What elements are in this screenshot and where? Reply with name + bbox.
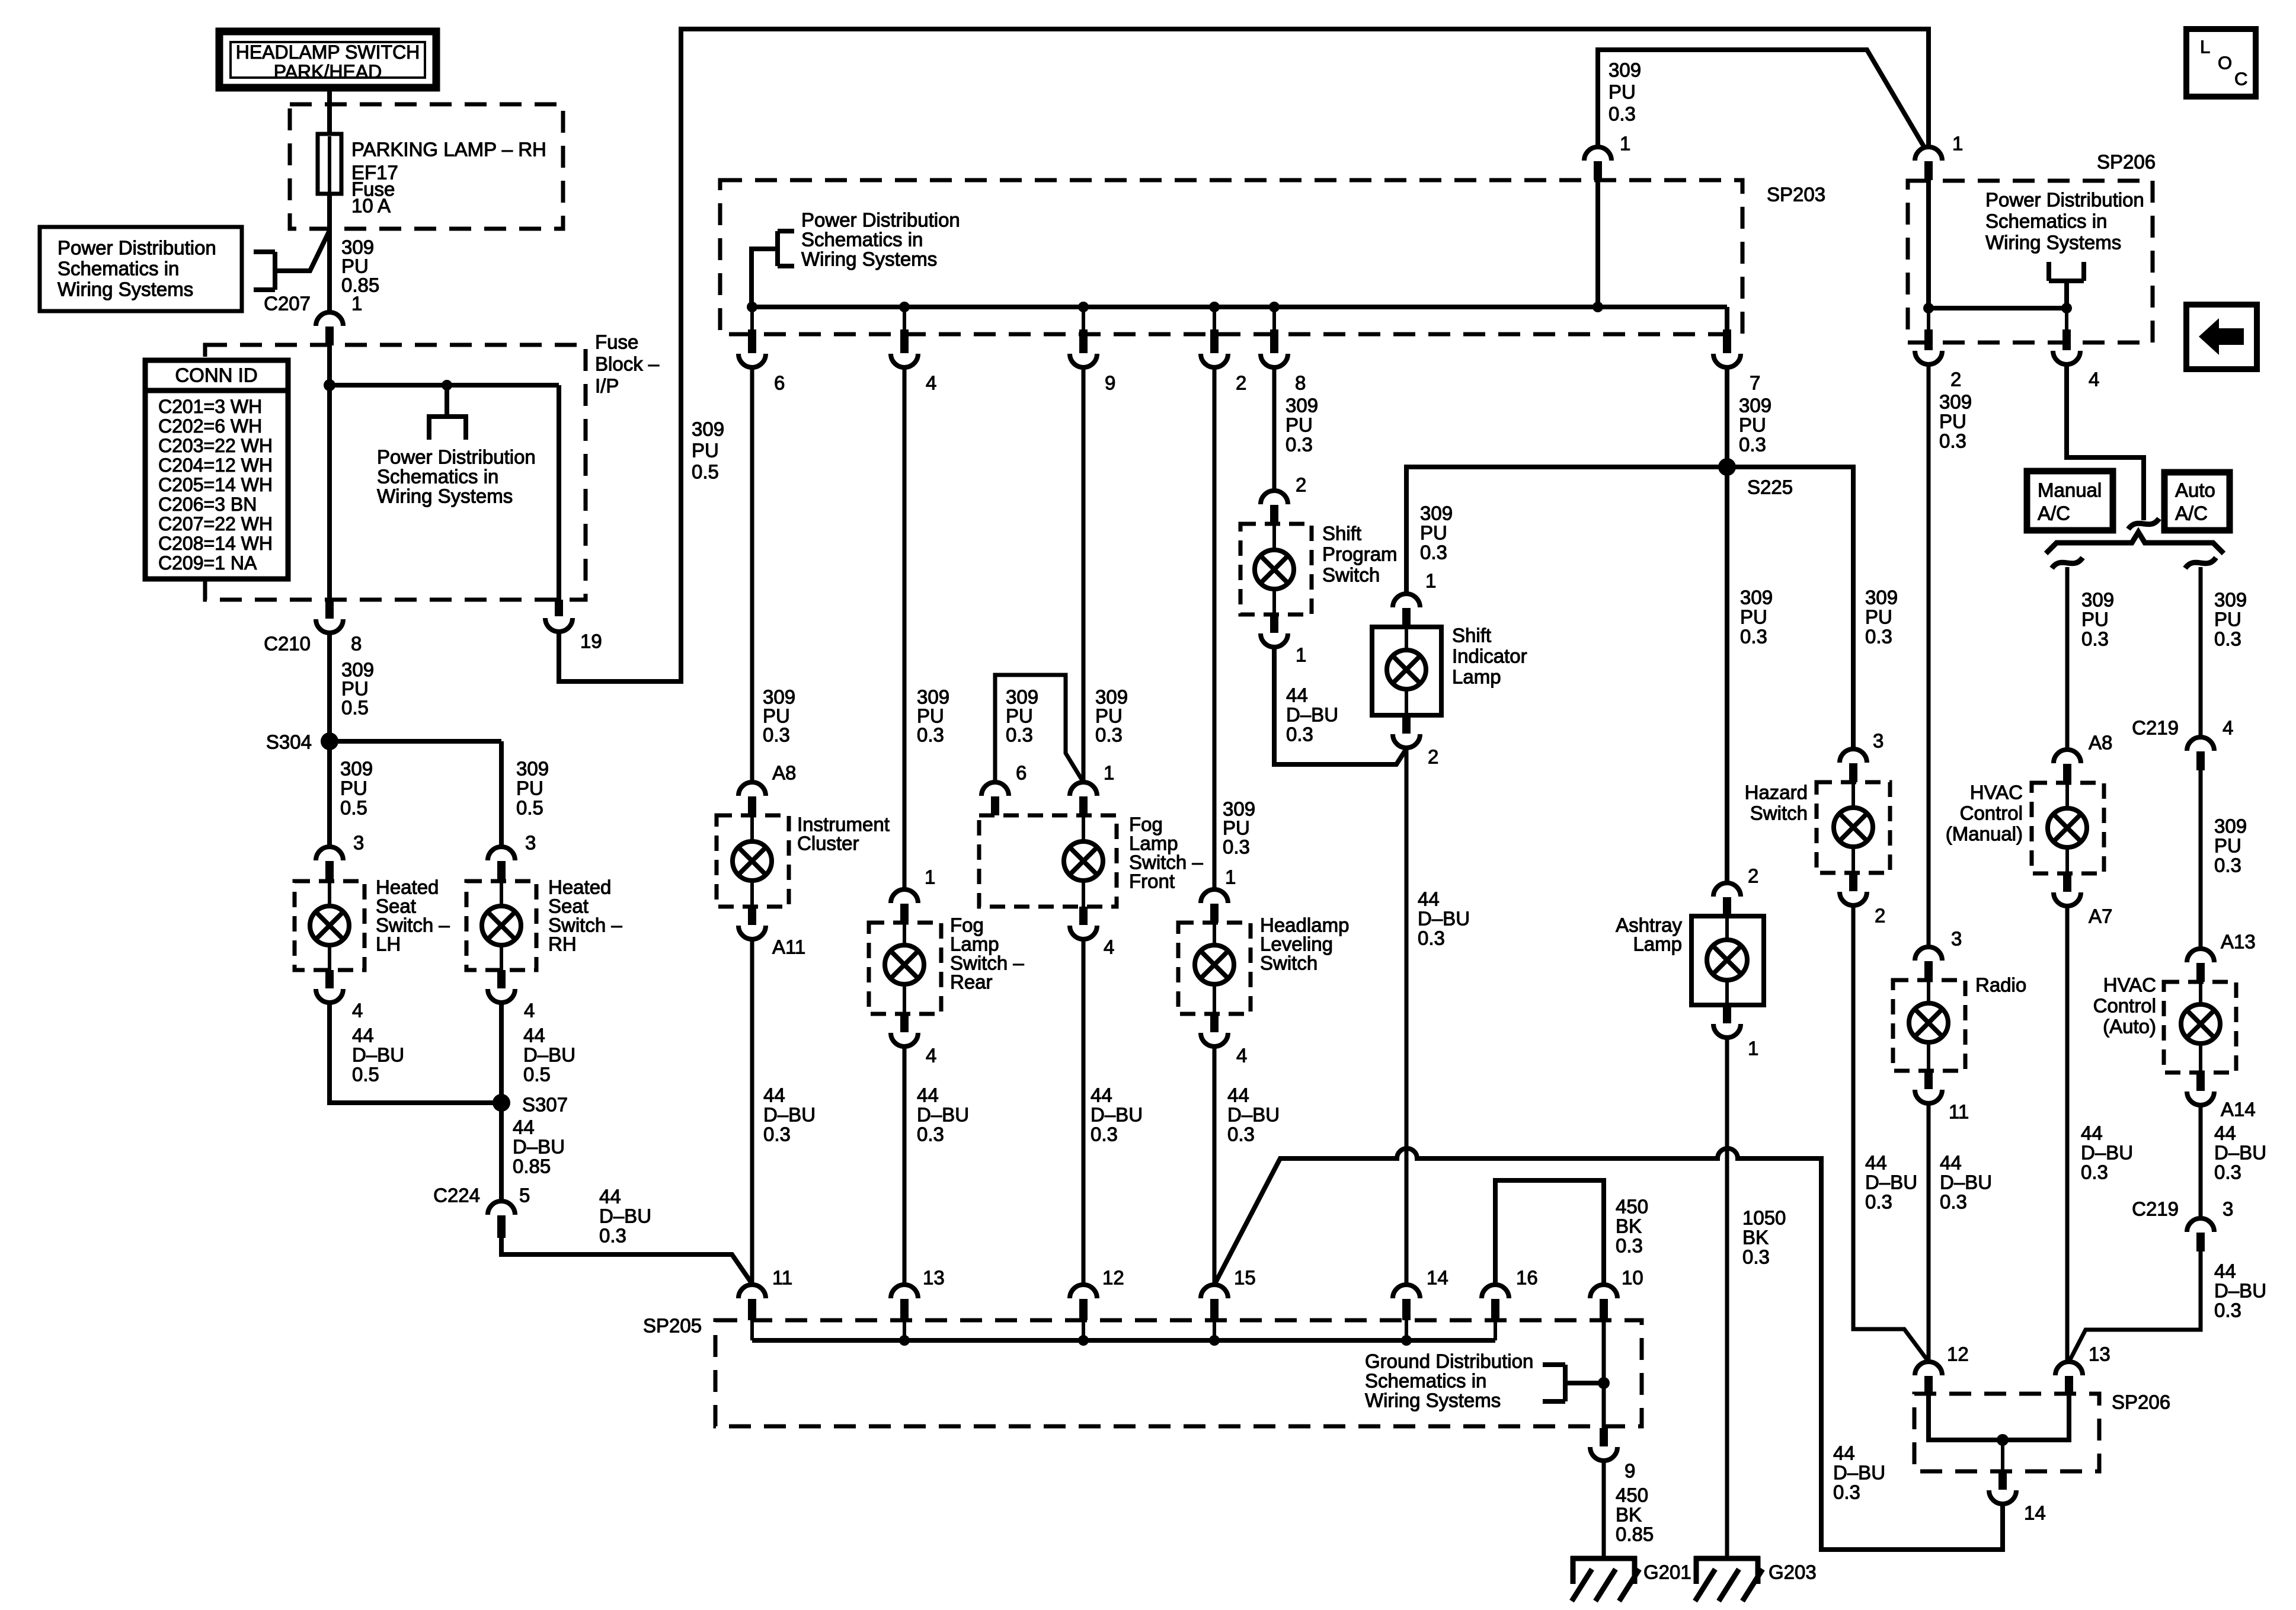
wire heated seat RH to S307	[499, 1003, 504, 1103]
dashed box SP203	[720, 180, 1742, 334]
connector shift program pin 1	[1270, 614, 1278, 633]
svg-text:Power Distribution: Power Distribution	[57, 237, 216, 259]
svg-text:C210: C210	[264, 633, 311, 655]
svg-text:309: 309	[1740, 587, 1773, 609]
wire SP206 pin 1 to internal bus	[1926, 180, 1931, 308]
connector shift indicator pin 2 arc	[1393, 734, 1420, 748]
junction SP203 bus x1269	[747, 302, 757, 312]
junction SP203 bus x1828	[1078, 302, 1089, 312]
svg-text:0.3: 0.3	[1616, 1235, 1643, 1257]
svg-text:0.3: 0.3	[1940, 1191, 1967, 1213]
svg-text:(Auto): (Auto)	[2103, 1016, 2156, 1038]
svg-text:0.3: 0.3	[917, 724, 944, 746]
label wire 309 PU 0.5 below C210	[341, 659, 374, 719]
connector shift indicator pin 1 arc	[1393, 594, 1420, 607]
reference bracket inside SP206 top	[2049, 262, 2084, 308]
connector heated seat LH pin 4	[325, 970, 334, 988]
wire SP206 bottom internal bus	[1929, 1394, 2069, 1440]
connector hazard pin 2	[1849, 873, 1857, 891]
junction SP206 top left	[1923, 303, 1934, 313]
label Fuse Block - I/P	[595, 331, 660, 397]
svg-text:44: 44	[513, 1116, 535, 1138]
connector SP203 pin 9	[1079, 329, 1088, 353]
svg-text:BK: BK	[1616, 1504, 1642, 1526]
svg-text:0.3: 0.3	[917, 1124, 944, 1145]
svg-text:A13: A13	[2221, 931, 2256, 953]
svg-text:1050: 1050	[1742, 1207, 1786, 1229]
connector C219 pin 4	[2196, 751, 2205, 770]
svg-text:Schematics in: Schematics in	[377, 466, 498, 488]
connector SP203 pin 8	[1270, 329, 1278, 353]
wire SP206 bus drop pin 2	[1927, 308, 1930, 332]
svg-text:PU: PU	[1939, 411, 1966, 433]
svg-text:D–BU: D–BU	[1833, 1462, 1885, 1484]
junction SP203 bus x2049	[1209, 302, 1220, 312]
svg-text:0.3: 0.3	[1223, 836, 1250, 858]
wire inside ashtray lamp	[1725, 916, 1729, 940]
wire SP203 pin 1 to bus	[1595, 180, 1600, 307]
connector heated seat RH pin 3 arc	[488, 847, 515, 860]
connector heated seat RH pin 3	[497, 861, 506, 881]
connector C207 arc	[316, 312, 343, 326]
svg-text:10: 10	[1622, 1267, 1643, 1289]
svg-text:HVAC: HVAC	[1970, 782, 2023, 804]
connector fog front pin 4 arc	[1070, 926, 1097, 939]
svg-text:A/C: A/C	[2038, 502, 2070, 524]
connector A11 pin	[748, 907, 756, 925]
wire S307 to C224	[499, 1103, 504, 1202]
connector fog front pin 6 arc	[981, 782, 1009, 796]
label wire 44 D-BU 0.5 RH	[523, 1025, 575, 1086]
junction SP206 top right	[2061, 303, 2072, 313]
wire S225 branch to hazard switch	[1727, 467, 1853, 749]
wire SP205 pin into bus x1828	[1082, 1320, 1085, 1340]
svg-text:9: 9	[1625, 1460, 1635, 1482]
wire inside HVAC manual lower	[2065, 847, 2069, 873]
svg-text:44: 44	[1227, 1084, 1249, 1106]
connector headlamp leveling pin 1 arc	[1201, 889, 1228, 903]
svg-text:C219: C219	[2132, 1198, 2179, 1220]
svg-text:0.85: 0.85	[341, 274, 379, 296]
label wire 309 PU 0.3 col B	[917, 686, 949, 746]
svg-text:16: 16	[1516, 1267, 1538, 1289]
svg-text:D–BU: D–BU	[1940, 1172, 1992, 1193]
connector SP206 pin 14	[1998, 1471, 2007, 1490]
wire inside shift program switch	[1272, 524, 1276, 550]
connector fog rear pin 4	[900, 1014, 909, 1032]
label wire 44 D-BU 0.3 SP206 bottom	[1833, 1442, 1885, 1503]
svg-text:4: 4	[2223, 717, 2233, 739]
svg-text:C205=14 WH: C205=14 WH	[158, 474, 273, 495]
svg-text:D–BU: D–BU	[523, 1044, 575, 1066]
svg-text:Rear: Rear	[950, 971, 993, 993]
svg-text:4: 4	[352, 1000, 363, 1022]
svg-text:D–BU: D–BU	[917, 1104, 969, 1126]
label wire 44 D-BU 0.3 col A	[763, 1084, 816, 1145]
ground G201	[1571, 1556, 1639, 1601]
label HVAC Control Auto	[2093, 974, 2156, 1038]
wire SP203 pin 6 to instrument cluster	[750, 367, 754, 782]
svg-text:C209=1 NA: C209=1 NA	[158, 552, 257, 574]
dashed box Fog Lamp Switch - Rear	[869, 923, 941, 1014]
svg-text:Power Distribution: Power Distribution	[1985, 189, 2144, 211]
connector SP205 pin 16 arc	[1482, 1285, 1509, 1298]
svg-text:0.3: 0.3	[1609, 103, 1636, 125]
junction S307	[493, 1094, 510, 1112]
wire inside heated seat LH lower	[328, 945, 331, 970]
connector HVAC auto A13 arc	[2187, 949, 2214, 962]
junction S304	[321, 732, 338, 750]
svg-text:A14: A14	[2221, 1099, 2256, 1121]
svg-text:PU: PU	[1865, 606, 1892, 628]
connector C224 arc	[488, 1201, 515, 1215]
junction SP205 bus x1526	[899, 1335, 910, 1346]
svg-text:309: 309	[2214, 589, 2247, 611]
component box HEADLAMP SWITCH PARK/HEAD	[219, 31, 436, 88]
variant box Manual A/C	[2027, 471, 2113, 530]
label wire 309 PU 0.3 col 8	[1285, 395, 1318, 456]
svg-text:Wiring Systems: Wiring Systems	[1365, 1390, 1501, 1411]
svg-text:44: 44	[2214, 1122, 2236, 1144]
connector SP205 pin 15	[1210, 1299, 1219, 1320]
svg-text:C224: C224	[433, 1185, 480, 1206]
svg-text:SP203: SP203	[1767, 184, 1825, 206]
dashed box Instrument Cluster	[717, 815, 789, 907]
svg-text:44: 44	[599, 1186, 621, 1208]
svg-text:A11: A11	[772, 936, 805, 958]
wire fuse block bus to pin 8	[327, 385, 332, 600]
label wire 309 PU 0.3 ashtray	[1740, 587, 1773, 648]
brace for A/C variants	[2046, 532, 2224, 553]
label Fog Lamp Switch - Rear	[950, 914, 1024, 993]
wire Manual A/C branch to HVAC manual	[2065, 567, 2070, 750]
connector SP205 pin 13	[900, 1299, 909, 1320]
connector HVAC auto A13 pin	[2196, 963, 2205, 982]
wire fuse EF17 to C207	[327, 192, 332, 312]
dashed box SP205	[715, 1320, 1642, 1426]
connector SP205 pin 9 arc	[1590, 1447, 1617, 1461]
svg-text:6: 6	[774, 372, 785, 394]
svg-text:Manual: Manual	[2038, 479, 2102, 501]
connector ashtray pin 1 arc	[1713, 1024, 1741, 1038]
lamp heated seat switch LH	[310, 906, 349, 945]
label Heated Seat Switch - RH	[548, 876, 622, 955]
wire S225 to ashtray lamp	[1725, 467, 1729, 883]
wire C219 pin 3 to SP206 pin 13	[2069, 1251, 2201, 1362]
label wire 44 D-BU 0.85	[513, 1116, 565, 1177]
wire SP203 bus drop pin 6	[750, 307, 754, 332]
dashed box Heated Seat Switch LH	[295, 881, 364, 970]
connector HVAC manual A7 arc	[2054, 892, 2081, 906]
svg-text:0.5: 0.5	[516, 797, 543, 819]
label Power Distribution ref in fuse block	[377, 446, 536, 507]
connector HVAC manual A8 pin	[2063, 764, 2071, 783]
label Shift Program Switch	[1322, 523, 1398, 586]
label wire 309 PU 0.3 shift indicator	[1420, 502, 1453, 564]
svg-text:PU: PU	[2081, 609, 2109, 630]
connector SP205 pin 13 arc	[891, 1285, 918, 1298]
svg-text:D–BU: D–BU	[513, 1136, 565, 1158]
svg-text:Indicator: Indicator	[1452, 645, 1527, 667]
svg-text:Shift: Shift	[1452, 625, 1491, 646]
fuse EF17	[318, 134, 341, 194]
label wire 309 PU 0.3 hazard	[1865, 587, 1898, 648]
wire S304 branch to RH	[330, 739, 501, 744]
wire heated seat LH to S307	[330, 1003, 501, 1103]
wire C219 pin 4 to HVAC auto	[2199, 770, 2203, 949]
connector HVAC auto A14 pin	[2196, 1073, 2205, 1091]
svg-text:Switch: Switch	[1322, 564, 1380, 586]
svg-text:3: 3	[1951, 928, 1962, 950]
dashed box HVAC Control Manual	[2032, 783, 2104, 873]
label Shift Indicator Lamp	[1452, 625, 1527, 688]
connector SP205 pin 10 arc	[1590, 1285, 1617, 1298]
dashed box HVAC Control Auto	[2164, 982, 2236, 1073]
svg-text:0.3: 0.3	[2214, 628, 2241, 650]
break symbol Auto A/C branch	[2185, 558, 2216, 568]
svg-text:D–BU: D–BU	[1091, 1104, 1143, 1126]
connector SP205 pin 9	[1600, 1428, 1608, 1446]
svg-text:1: 1	[1225, 866, 1236, 888]
svg-text:Control: Control	[2093, 995, 2156, 1017]
wire pin 19 feed to SP206 pin 1	[559, 29, 1929, 681]
svg-text:0.3: 0.3	[1739, 434, 1766, 456]
svg-text:C203=22 WH: C203=22 WH	[158, 435, 273, 456]
svg-text:Wiring Systems: Wiring Systems	[57, 279, 193, 300]
svg-text:13: 13	[2089, 1343, 2110, 1365]
connector shift program pin 2 arc	[1261, 491, 1288, 504]
svg-text:10 A: 10 A	[351, 195, 391, 217]
svg-text:Fuse: Fuse	[595, 331, 638, 353]
svg-text:Schematics in: Schematics in	[1985, 210, 2107, 232]
lamp ashtray	[1707, 940, 1747, 980]
svg-text:44: 44	[1286, 684, 1308, 706]
svg-text:Switch: Switch	[1750, 802, 1808, 824]
label PARKING LAMP - RH EF17 Fuse 10 A	[351, 139, 546, 217]
svg-text:Block –: Block –	[595, 353, 660, 375]
variant box Auto A/C	[2164, 472, 2230, 530]
svg-text:0.3: 0.3	[2081, 628, 2109, 650]
CONN ID table	[145, 360, 288, 579]
wire shift indicator pin 2 to SP205 pin 14	[1405, 748, 1409, 1285]
connector hazard pin 3	[1849, 763, 1857, 782]
label wire 309 PU 0.3 col C pin1	[1095, 686, 1128, 746]
wire 450 BK loop pin 16 to pin 10	[1495, 1180, 1604, 1285]
connector SP203 pin 7 arc	[1713, 354, 1741, 367]
lamp radio	[1909, 1003, 1948, 1042]
wire SP203 pin 8 to shift program switch	[1272, 367, 1277, 491]
svg-text:309: 309	[1865, 587, 1898, 609]
svg-text:44: 44	[1418, 888, 1440, 910]
svg-text:S304: S304	[266, 731, 312, 753]
svg-text:PU: PU	[2214, 835, 2241, 857]
svg-text:D–BU: D–BU	[2081, 1142, 2133, 1164]
svg-text:4: 4	[1104, 936, 1114, 958]
connector shift program pin 1 arc	[1261, 633, 1288, 647]
connector heated seat RH pin 4	[497, 970, 506, 988]
svg-text:Power Distribution: Power Distribution	[801, 209, 960, 231]
svg-text:8: 8	[351, 633, 362, 655]
svg-text:BK: BK	[1616, 1215, 1642, 1237]
svg-text:BK: BK	[1742, 1227, 1769, 1249]
wire inside fog rear lower	[903, 984, 906, 1014]
label Power Distribution ref in SP203	[801, 209, 960, 270]
wire SP203 pin 4 to fog lamp rear	[903, 367, 907, 889]
connector SP206 pin 2	[1924, 329, 1933, 350]
label wire 309 PU 0.3 HVAC auto	[2214, 815, 2247, 876]
svg-text:1: 1	[925, 866, 935, 888]
connector SP205 pin 12	[1079, 1299, 1088, 1320]
svg-text:0.3: 0.3	[1227, 1124, 1255, 1145]
svg-text:PARKING LAMP – RH: PARKING LAMP – RH	[351, 139, 546, 161]
svg-text:0.3: 0.3	[2214, 1161, 2241, 1183]
connector hazard pin 3 arc	[1840, 749, 1867, 763]
label wire 309 PU 0.5 LH	[340, 758, 373, 819]
label HVAC Control Manual	[1946, 782, 2023, 845]
svg-text:0.3: 0.3	[763, 1124, 791, 1145]
wire inside HVAC auto	[2199, 982, 2202, 1004]
label wire 44 D-BU 0.3 col D	[1227, 1084, 1280, 1145]
lamp headlamp leveling switch	[1195, 945, 1234, 984]
svg-text:S307: S307	[522, 1094, 568, 1116]
wire fog front to SP205 pin 12	[1082, 939, 1086, 1285]
label wire 309 PU 0.85	[341, 236, 379, 296]
connector SP205 pin 15 arc	[1201, 1285, 1228, 1298]
svg-text:I/P: I/P	[595, 375, 619, 397]
wire inside fog front lower	[1082, 881, 1085, 907]
svg-text:4: 4	[926, 372, 936, 394]
wire hazard pin 2 to SP206 pin 12	[1853, 905, 1929, 1362]
wire C210 to S304	[327, 633, 332, 741]
svg-text:44: 44	[2081, 1122, 2103, 1144]
svg-text:0.5: 0.5	[692, 461, 719, 483]
svg-text:C208=14 WH: C208=14 WH	[158, 533, 273, 554]
wire inside fog front	[1082, 815, 1085, 841]
svg-text:7: 7	[1750, 372, 1760, 394]
svg-text:Ground Distribution: Ground Distribution	[1365, 1350, 1533, 1372]
svg-text:0.3: 0.3	[1006, 724, 1033, 746]
svg-text:PARK/HEAD: PARK/HEAD	[274, 61, 382, 82]
wire inside shift indicator	[1405, 627, 1408, 650]
svg-text:D–BU: D–BU	[2214, 1280, 2266, 1302]
wire headlamp leveling to SP205 pin 15	[1213, 1046, 1217, 1285]
connector SP205 pin 16	[1491, 1299, 1499, 1320]
svg-text:HEADLAMP SWITCH: HEADLAMP SWITCH	[236, 41, 420, 63]
connector fog front pin 6	[991, 796, 999, 815]
svg-text:D–BU: D–BU	[1227, 1104, 1280, 1126]
wire SP206 top internal bus	[1929, 306, 2067, 311]
dashed box Heated Seat Switch RH	[466, 881, 536, 970]
connector heated seat LH pin 3 arc	[316, 847, 343, 860]
wire SP205 pin 9 to G201	[1602, 1461, 1606, 1556]
svg-text:A8: A8	[2089, 732, 2112, 754]
connector SP206 pin 13 arc	[2055, 1362, 2083, 1375]
svg-text:3: 3	[525, 832, 536, 854]
connector fog rear pin 1	[900, 904, 909, 923]
legend box L O C	[2186, 29, 2256, 97]
wire branch to fog front pin 6	[995, 675, 1083, 782]
wire HVAC auto A14 to C219 pin 3	[2199, 1105, 2203, 1218]
dashed box Shift Program Switch	[1240, 524, 1312, 614]
label wire 309 PU 0.5 RH	[516, 758, 549, 819]
connector ashtray pin 2 arc	[1713, 883, 1741, 897]
svg-text:309: 309	[516, 758, 549, 780]
svg-text:3: 3	[353, 832, 364, 854]
wire SP205 pin into bus x1526	[903, 1320, 906, 1340]
connector fog front pin 1	[1079, 796, 1088, 815]
connector radio pin 11	[1924, 1071, 1933, 1089]
dashed box PARKING LAMP fuse	[290, 104, 563, 229]
svg-text:0.85: 0.85	[513, 1156, 551, 1177]
connector fog front pin 1 arc	[1070, 782, 1097, 796]
lamp shift program switch	[1255, 550, 1294, 589]
label wire 44 D-BU 0.3 to pin 11	[599, 1186, 651, 1247]
label Heated Seat Switch - LH	[376, 876, 450, 955]
wire inside fog rear	[903, 923, 906, 945]
svg-text:PU: PU	[1739, 414, 1766, 436]
svg-text:(Manual): (Manual)	[1946, 823, 2023, 845]
svg-text:Power Distribution: Power Distribution	[377, 446, 536, 468]
label wire 44 D-BU 0.3 HVAC auto	[2214, 1122, 2266, 1183]
wire SP203 bus to pin 7	[1725, 307, 1729, 332]
wire shift program pin 1 to shift indicator pin 2	[1274, 647, 1407, 764]
svg-text:A8: A8	[772, 762, 796, 784]
svg-text:Switch: Switch	[1260, 952, 1318, 974]
wire SP203 bus drop pin 2	[1213, 307, 1216, 332]
label Power Distribution ref in SP206	[1985, 189, 2144, 254]
svg-text:0.3: 0.3	[1095, 724, 1123, 746]
svg-text:Wiring Systems: Wiring Systems	[377, 485, 513, 507]
svg-text:0.5: 0.5	[352, 1064, 379, 1086]
svg-text:11: 11	[772, 1267, 792, 1289]
break symbol on A/C feed	[2128, 518, 2159, 529]
connector SP206 pin 13	[2065, 1376, 2073, 1394]
svg-text:A7: A7	[2089, 905, 2112, 927]
svg-text:Wiring Systems: Wiring Systems	[801, 248, 937, 270]
wire S304 to heated seat RH	[499, 741, 504, 847]
svg-text:1: 1	[1104, 762, 1114, 784]
svg-text:O: O	[2218, 53, 2232, 73]
svg-text:0.3: 0.3	[1286, 724, 1313, 745]
svg-text:4: 4	[524, 1000, 535, 1022]
svg-text:C: C	[2234, 69, 2247, 89]
reference bracket inside fuse block	[427, 385, 468, 440]
svg-text:1: 1	[1748, 1038, 1758, 1060]
connector C210 pin 8	[325, 600, 334, 619]
dashed box Fog Lamp Switch - Front	[979, 815, 1117, 907]
svg-text:RH: RH	[548, 933, 577, 955]
label Hazard Switch	[1745, 782, 1808, 824]
connector SP205 pin 11	[748, 1299, 756, 1320]
svg-text:G201: G201	[1643, 1561, 1691, 1583]
svg-text:PU: PU	[340, 777, 367, 799]
svg-text:0.3: 0.3	[599, 1225, 626, 1247]
box Power Distribution ref	[40, 227, 242, 311]
connector SP203 pin 4	[900, 329, 909, 353]
wire SP205 pin into bus x1269	[750, 1320, 754, 1340]
wire inside radio	[1927, 980, 1930, 1003]
wire inside ashtray lamp lower	[1725, 980, 1729, 1005]
svg-text:PU: PU	[1285, 414, 1313, 436]
svg-text:44: 44	[2214, 1260, 2236, 1282]
svg-text:2: 2	[1950, 369, 1961, 391]
wire inside heated seat RH	[500, 881, 503, 906]
svg-text:Schematics in: Schematics in	[1365, 1370, 1486, 1392]
connector SP203 pin 9 arc	[1070, 354, 1097, 367]
dashed box SP206 bottom	[1914, 1394, 2099, 1471]
svg-text:D–BU: D–BU	[1865, 1172, 1917, 1193]
junction SP203 bus x1526	[899, 302, 910, 312]
